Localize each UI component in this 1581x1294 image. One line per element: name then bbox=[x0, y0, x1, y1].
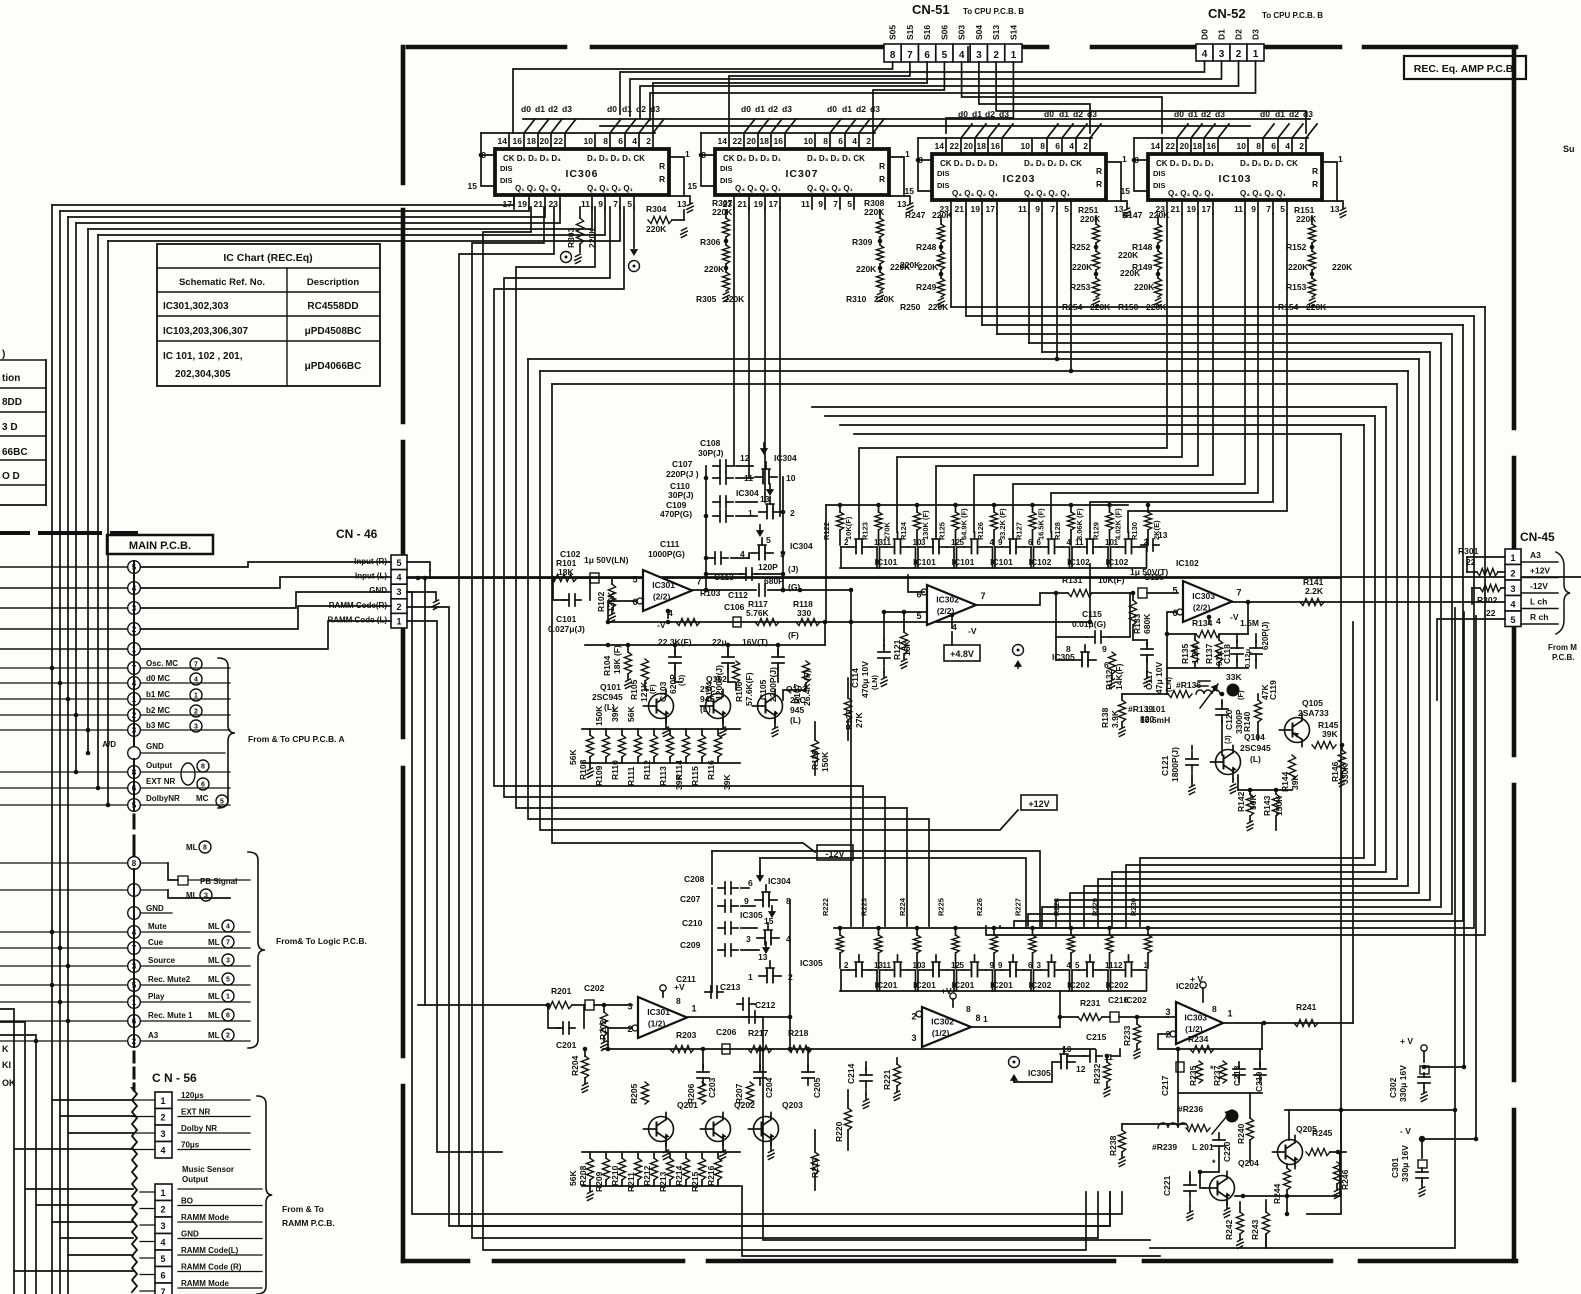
svg-text:220K: 220K bbox=[1072, 262, 1093, 272]
svg-text:9: 9 bbox=[990, 961, 995, 970]
svg-text:16: 16 bbox=[991, 141, 1001, 151]
svg-text:3: 3 bbox=[396, 587, 401, 597]
svg-text:6: 6 bbox=[1028, 538, 1033, 547]
svg-text:S03: S03 bbox=[957, 25, 967, 40]
svg-text:3: 3 bbox=[911, 1033, 916, 1043]
svg-text:R310: R310 bbox=[846, 294, 867, 304]
pin DolbyNR MC 5 bbox=[128, 799, 141, 812]
svg-text:330μ 16V: 330μ 16V bbox=[1398, 1065, 1408, 1102]
svg-text:9: 9 bbox=[818, 199, 823, 209]
svg-text:(L): (L) bbox=[700, 704, 711, 714]
svg-text:): ) bbox=[2, 349, 5, 360]
svg-text:5: 5 bbox=[1172, 586, 1177, 596]
svg-text:R305: R305 bbox=[696, 294, 717, 304]
svg-text:220K: 220K bbox=[1288, 262, 1309, 272]
svg-text:D3: D3 bbox=[1251, 29, 1261, 40]
svg-text:R123: R123 bbox=[861, 522, 870, 540]
svg-text:R303: R303 bbox=[566, 227, 576, 248]
svg-text:( J): ( J) bbox=[677, 674, 686, 686]
svg-text:R138: R138 bbox=[1100, 707, 1110, 728]
svg-text:2: 2 bbox=[844, 538, 849, 547]
svg-text:1: 1 bbox=[226, 994, 230, 1001]
svg-text:RAMM Code(L): RAMM Code(L) bbox=[181, 1246, 239, 1255]
svg-text:4: 4 bbox=[852, 136, 857, 146]
svg-text:+12V: +12V bbox=[1530, 566, 1550, 576]
svg-text:R304: R304 bbox=[646, 204, 667, 214]
svg-text:9: 9 bbox=[598, 199, 603, 209]
svg-text:4: 4 bbox=[396, 573, 401, 583]
wire R118 to bank bbox=[825, 590, 827, 622]
svg-text:d3: d3 bbox=[562, 104, 572, 114]
svg-text:Q204: Q204 bbox=[1238, 1158, 1259, 1168]
svg-text:56K: 56K bbox=[626, 706, 636, 722]
svg-text:Rec. Mute 1: Rec. Mute 1 bbox=[148, 1011, 193, 1020]
svg-text:25C: 25C bbox=[700, 684, 716, 694]
power label +12V bbox=[1021, 795, 1057, 810]
svg-text:IC305: IC305 bbox=[1028, 1068, 1051, 1078]
svg-text:11: 11 bbox=[1234, 204, 1243, 214]
transistor Q103 2SC945 (L) bbox=[758, 694, 783, 719]
op-amp IC302 (2/2) bbox=[927, 585, 976, 625]
pin Play ML 1 bbox=[128, 996, 141, 1009]
pin b1 MC 1 bbox=[128, 693, 141, 706]
svg-text:0.027μ(J): 0.027μ(J) bbox=[548, 624, 585, 634]
svg-text:7: 7 bbox=[907, 50, 913, 61]
svg-text:Q103: Q103 bbox=[786, 684, 807, 694]
transistor Q202 bbox=[706, 1117, 731, 1142]
wire IC301 lower feedback bbox=[608, 1028, 632, 1049]
svg-text:C102: C102 bbox=[560, 549, 581, 559]
svg-text:IC101: IC101 bbox=[990, 557, 1013, 567]
pin b3 MC 3 bbox=[128, 724, 141, 737]
svg-text:To CPU P.C.B. B: To CPU P.C.B. B bbox=[963, 7, 1024, 16]
svg-text:R143: R143 bbox=[1262, 795, 1272, 816]
svg-text:66BC: 66BC bbox=[2, 447, 28, 458]
wire transistor row rail bbox=[584, 1055, 586, 1057]
svg-text:IC202: IC202 bbox=[1029, 980, 1052, 990]
svg-text:R130: R130 bbox=[1130, 522, 1139, 540]
svg-text:R248: R248 bbox=[916, 242, 937, 252]
wire IC301 output bbox=[692, 589, 756, 591]
svg-text:R128: R128 bbox=[1053, 522, 1062, 540]
svg-text:10.5mH: 10.5mH bbox=[1140, 715, 1170, 725]
svg-text:Description: Description bbox=[307, 277, 359, 288]
svg-text:30P(J): 30P(J) bbox=[698, 448, 724, 458]
svg-text:CN-51: CN-51 bbox=[912, 2, 950, 17]
wire bus line S9 bbox=[552, 383, 1397, 385]
svg-text:DIS: DIS bbox=[937, 181, 950, 190]
svg-text:R242: R242 bbox=[1224, 1219, 1234, 1240]
svg-text:220K: 220K bbox=[1296, 214, 1317, 224]
svg-text:IC Chart (REC.Eq): IC Chart (REC.Eq) bbox=[223, 252, 312, 264]
svg-text:20: 20 bbox=[964, 141, 974, 151]
svg-text:25C: 25C bbox=[790, 695, 806, 705]
svg-text:R135: R135 bbox=[1180, 643, 1190, 664]
svg-text:d2: d2 bbox=[768, 104, 778, 114]
resistor ladder R309,220K,R310,220K bbox=[879, 210, 881, 218]
svg-text:CK D₁ D₂ D₃ D₄: CK D₁ D₂ D₃ D₄ bbox=[503, 154, 561, 163]
svg-text:R: R bbox=[1312, 179, 1318, 189]
svg-text:1: 1 bbox=[685, 149, 690, 159]
svg-text:ML: ML bbox=[208, 1031, 220, 1040]
wire Q104/Q105 interconnect bbox=[1232, 779, 1234, 782]
pin d0 MC 4 bbox=[128, 677, 141, 690]
svg-text:5: 5 bbox=[1280, 204, 1285, 214]
pin Rec. Mute2 ML 5 bbox=[128, 979, 141, 992]
transistor Q105 2SA733 bbox=[1285, 718, 1310, 743]
svg-text:7: 7 bbox=[160, 1287, 165, 1294]
bank bottom rail bbox=[840, 567, 1145, 569]
svg-text:S05: S05 bbox=[888, 25, 898, 40]
svg-text:4: 4 bbox=[160, 1146, 165, 1156]
svg-text:22: 22 bbox=[950, 141, 960, 151]
svg-text:MAIN P.C.B.: MAIN P.C.B. bbox=[129, 540, 191, 552]
svg-text:1: 1 bbox=[905, 149, 910, 159]
svg-text:Q₄ Q₃ Q₂ Q₁: Q₄ Q₃ Q₂ Q₁ bbox=[1168, 189, 1215, 198]
svg-text:D0: D0 bbox=[1200, 29, 1210, 40]
wire base rail upper bbox=[585, 644, 825, 646]
svg-text:5: 5 bbox=[766, 535, 771, 545]
svg-text:3: 3 bbox=[1165, 1007, 1170, 1017]
wire CN-46 signal verticals bbox=[407, 592, 1122, 1214]
svg-text:A3: A3 bbox=[148, 1031, 159, 1040]
svg-text:2SC945: 2SC945 bbox=[1240, 743, 1271, 753]
wire CN-46 staircase to MAIN P.C.B. pins bbox=[141, 562, 391, 567]
svg-text:9: 9 bbox=[744, 896, 749, 906]
svg-text:680K: 680K bbox=[1142, 613, 1152, 634]
svg-text:C202: C202 bbox=[584, 983, 605, 993]
svg-text:130K (F): 130K (F) bbox=[921, 510, 930, 540]
svg-text:(J): (J) bbox=[788, 564, 799, 574]
svg-text:120P: 120P bbox=[758, 562, 778, 572]
svg-text:DIS: DIS bbox=[720, 164, 733, 173]
svg-text:RAMM Code (R): RAMM Code (R) bbox=[181, 1263, 242, 1272]
svg-text:Play: Play bbox=[148, 992, 165, 1001]
svg-text:IC305: IC305 bbox=[740, 910, 763, 920]
svg-text:R230: R230 bbox=[1129, 898, 1138, 916]
svg-text:8: 8 bbox=[1066, 644, 1071, 654]
wire bus line R3 bbox=[1112, 407, 1386, 926]
svg-text:30P(J): 30P(J) bbox=[668, 490, 694, 500]
wire C120 to Q104 base bbox=[1221, 721, 1223, 755]
svg-text:21: 21 bbox=[534, 199, 544, 209]
svg-text:C112: C112 bbox=[728, 590, 748, 600]
svg-text:K: K bbox=[2, 1044, 9, 1054]
svg-text:R109: R109 bbox=[594, 765, 604, 786]
wire bus line S6 bbox=[1042, 351, 1430, 353]
svg-text:17: 17 bbox=[986, 204, 996, 214]
svg-text:6: 6 bbox=[160, 1271, 165, 1281]
svg-text:Q₄ Q₃ Q₂ Q₁: Q₄ Q₃ Q₂ Q₁ bbox=[735, 184, 782, 193]
svg-text:8: 8 bbox=[1212, 1004, 1217, 1014]
svg-text:ML: ML bbox=[208, 1011, 220, 1020]
svg-text:d3: d3 bbox=[650, 104, 660, 114]
wire bus line R2 bbox=[1126, 416, 1375, 926]
svg-text:1: 1 bbox=[983, 1014, 988, 1024]
svg-text:10: 10 bbox=[584, 136, 594, 146]
svg-text:3: 3 bbox=[160, 1221, 165, 1231]
svg-text:*: * bbox=[1212, 1158, 1216, 1168]
svg-text:5: 5 bbox=[942, 50, 948, 61]
wire CN-46 pin5 input R bbox=[407, 562, 430, 570]
transistor Q203 bbox=[754, 1117, 779, 1142]
svg-text:Osc. MC: Osc. MC bbox=[146, 659, 178, 668]
svg-text:C301: C301 bbox=[1390, 1157, 1400, 1178]
svg-text:R: R bbox=[1312, 166, 1318, 176]
svg-text:R244: R244 bbox=[1272, 1183, 1282, 1204]
svg-text:CN-52: CN-52 bbox=[1208, 6, 1246, 21]
wire bus line M2 +12V rail bbox=[540, 371, 1018, 830]
svg-text:C217: C217 bbox=[1160, 1075, 1170, 1096]
svg-text:C120: C120 bbox=[1224, 709, 1234, 730]
switch IC101 bbox=[848, 546, 856, 548]
svg-text:Source: Source bbox=[148, 956, 176, 965]
svg-text:R153: R153 bbox=[1286, 282, 1307, 292]
svg-text:2: 2 bbox=[993, 50, 999, 61]
svg-text:1.5M: 1.5M bbox=[1240, 618, 1259, 628]
svg-text:#R239: #R239 bbox=[1152, 1142, 1177, 1152]
svg-text:(L): (L) bbox=[790, 715, 801, 725]
svg-text:57.6K(F): 57.6K(F) bbox=[744, 672, 754, 706]
svg-text:(LN): (LN) bbox=[1164, 677, 1173, 692]
wire bus above IC307 bbox=[701, 132, 875, 134]
svg-text:18: 18 bbox=[977, 141, 987, 151]
svg-text:4: 4 bbox=[1067, 538, 1072, 547]
svg-text:5: 5 bbox=[632, 575, 637, 585]
svg-text:220P(J ): 220P(J ) bbox=[666, 469, 699, 479]
svg-text:CN - 46: CN - 46 bbox=[336, 527, 378, 541]
svg-text:6: 6 bbox=[1028, 961, 1033, 970]
svg-text:14K(F): 14K(F) bbox=[1114, 663, 1124, 690]
svg-text:Q₄ Q₃ Q₂ Q₁: Q₄ Q₃ Q₂ Q₁ bbox=[587, 184, 634, 193]
svg-text:R134: R134 bbox=[1192, 618, 1213, 628]
wire bus line R11 bbox=[1000, 316, 1474, 928]
svg-text:C208: C208 bbox=[684, 874, 705, 884]
svg-text:ML: ML bbox=[208, 938, 220, 947]
svg-text:1: 1 bbox=[1011, 50, 1017, 61]
svg-text:C201: C201 bbox=[556, 1040, 577, 1050]
switch IC101 bbox=[887, 546, 895, 548]
wire feedback bus upper bbox=[608, 621, 1090, 623]
svg-text:- V: - V bbox=[1400, 1126, 1411, 1136]
wire input L long bbox=[407, 577, 1341, 579]
pin Cue ML 7 bbox=[128, 942, 141, 955]
brace From & To Logic P.C.B. bbox=[248, 852, 265, 1048]
svg-text:R205: R205 bbox=[629, 1083, 639, 1104]
svg-text:150K: 150K bbox=[594, 705, 604, 726]
svg-text:R218: R218 bbox=[788, 1028, 809, 1038]
svg-text:C107: C107 bbox=[672, 459, 693, 469]
svg-text:Q104: Q104 bbox=[1244, 732, 1265, 742]
svg-text:IC 101, 102 , 201,: IC 101, 102 , 201, bbox=[163, 351, 243, 362]
svg-text:4: 4 bbox=[1069, 141, 1074, 151]
svg-text:4: 4 bbox=[959, 50, 965, 61]
svg-text:Output: Output bbox=[146, 761, 173, 770]
svg-text:11: 11 bbox=[883, 961, 892, 970]
svg-text:ML: ML bbox=[208, 922, 220, 931]
wire bus line S10 bbox=[812, 406, 1386, 408]
wire bus line R12 bbox=[986, 307, 1485, 935]
svg-text:3: 3 bbox=[921, 538, 926, 547]
switch IC202 bbox=[1002, 969, 1010, 971]
svg-text:8DD: 8DD bbox=[2, 397, 22, 408]
svg-text:33K: 33K bbox=[1226, 672, 1242, 682]
svg-text:d0: d0 bbox=[741, 104, 751, 114]
svg-text:2: 2 bbox=[1083, 141, 1088, 151]
wire bottom right corner lines bbox=[1150, 608, 1455, 1248]
svg-text:1: 1 bbox=[1144, 961, 1149, 970]
svg-text:+ V: + V bbox=[1400, 1036, 1413, 1046]
svg-text:47μ 10V: 47μ 10V bbox=[1154, 662, 1164, 694]
svg-text:tion: tion bbox=[2, 373, 20, 384]
svg-text:C114: C114 bbox=[850, 668, 860, 688]
svg-text:b2 MC: b2 MC bbox=[146, 706, 170, 715]
svg-text:Mute: Mute bbox=[148, 922, 167, 931]
svg-text:1μ 50V(T): 1μ 50V(T) bbox=[1130, 567, 1168, 577]
switch IC202 bbox=[1118, 969, 1126, 971]
svg-text:Input (L): Input (L) bbox=[355, 572, 387, 581]
svg-text:120μs: 120μs bbox=[181, 1091, 204, 1100]
svg-text:5: 5 bbox=[960, 961, 965, 970]
svg-text:R131: R131 bbox=[1062, 575, 1083, 585]
svg-text:R ch: R ch bbox=[1530, 612, 1548, 622]
svg-text:220K: 220K bbox=[704, 264, 725, 274]
svg-text:11: 11 bbox=[801, 199, 810, 209]
svg-text:17: 17 bbox=[769, 199, 779, 209]
wire IC303 output bbox=[1232, 601, 1505, 603]
svg-text:R102: R102 bbox=[596, 591, 606, 612]
svg-text:220K: 220K bbox=[918, 262, 939, 272]
svg-text:C211: C211 bbox=[676, 974, 696, 984]
wire IC203 output drops bbox=[950, 214, 952, 307]
svg-text:3: 3 bbox=[1510, 584, 1515, 594]
svg-text:2: 2 bbox=[790, 508, 795, 518]
wire bus line S4 bbox=[997, 333, 1452, 335]
REC.Eq.AMP P.C.B. border left edge bbox=[401, 47, 406, 183]
wire IC303 feedback box bbox=[1167, 612, 1177, 668]
svg-text:10: 10 bbox=[1237, 141, 1247, 151]
svg-text:L 201: L 201 bbox=[1192, 1142, 1214, 1152]
wire IC302 inputs bbox=[884, 611, 927, 613]
svg-text:3: 3 bbox=[746, 934, 751, 944]
svg-text:R148: R148 bbox=[1132, 242, 1153, 252]
svg-text:R225: R225 bbox=[937, 898, 946, 916]
wire IC301 lower output bbox=[687, 1016, 790, 1018]
wire bank to feedback bus bbox=[1089, 564, 1091, 622]
svg-text:8: 8 bbox=[1256, 141, 1261, 151]
svg-text:64.9K (F): 64.9K (F) bbox=[960, 508, 969, 540]
svg-text:(2/2): (2/2) bbox=[653, 592, 671, 602]
svg-text:7: 7 bbox=[1266, 204, 1271, 214]
switch IC202 bbox=[1041, 969, 1049, 971]
svg-text:3: 3 bbox=[160, 1129, 165, 1139]
svg-text:IC202: IC202 bbox=[1067, 980, 1090, 990]
svg-text:R122: R122 bbox=[822, 522, 831, 540]
svg-text:D1: D1 bbox=[1217, 29, 1227, 40]
svg-text:R241: R241 bbox=[1296, 1002, 1317, 1012]
svg-text:R: R bbox=[659, 174, 665, 184]
svg-text:3: 3 bbox=[627, 1002, 632, 1012]
svg-text:C221: C221 bbox=[1162, 1175, 1172, 1196]
wire bus CN-51 to IC clock pins bbox=[513, 62, 893, 133]
svg-text:R226: R226 bbox=[975, 898, 984, 916]
svg-text:220K: 220K bbox=[864, 207, 885, 217]
svg-text:2200P(J): 2200P(J) bbox=[768, 667, 778, 702]
svg-text:C108: C108 bbox=[700, 438, 721, 448]
bank rail lower bbox=[834, 927, 1128, 929]
svg-text:DIS: DIS bbox=[500, 176, 513, 185]
svg-text:+4.8V: +4.8V bbox=[950, 649, 974, 659]
wire Q205 collector up bbox=[1288, 1110, 1290, 1140]
svg-text:15: 15 bbox=[1121, 186, 1131, 196]
svg-text:R235: R235 bbox=[1188, 1065, 1198, 1086]
svg-text:C N - 56: C N - 56 bbox=[152, 1071, 197, 1085]
MAIN P.C.B. pins 5-1 bbox=[128, 561, 141, 574]
svg-text:GND: GND bbox=[146, 742, 164, 751]
svg-text:R217: R217 bbox=[748, 1028, 769, 1038]
svg-text:8: 8 bbox=[1040, 141, 1045, 151]
svg-text:D₄ D₃ D₂ D₁ CK: D₄ D₃ D₂ D₁ CK bbox=[587, 154, 645, 163]
node e bbox=[633, 207, 635, 248]
op-amp IC302 (1/2) bbox=[922, 1007, 971, 1047]
svg-text:R149: R149 bbox=[1132, 262, 1153, 272]
svg-text:4: 4 bbox=[226, 924, 230, 931]
wire input R bbox=[430, 570, 551, 578]
transistor Q204 bbox=[1210, 1176, 1235, 1201]
svg-text:R203: R203 bbox=[676, 1030, 697, 1040]
svg-text:From & To: From & To bbox=[282, 1204, 324, 1214]
svg-text:C210: C210 bbox=[682, 918, 703, 928]
switch IC102 bbox=[1041, 546, 1049, 548]
svg-text:MC: MC bbox=[196, 794, 209, 803]
wire bus line R5 bbox=[1084, 371, 1408, 926]
svg-text:1000P(G): 1000P(G) bbox=[648, 549, 685, 559]
svg-text:(1/2): (1/2) bbox=[932, 1028, 950, 1038]
svg-text:33.2K (F): 33.2K (F) bbox=[998, 508, 1007, 540]
svg-text:2: 2 bbox=[1236, 49, 1242, 60]
svg-text:DIS: DIS bbox=[1153, 181, 1166, 190]
svg-text:μPD4066BC: μPD4066BC bbox=[305, 361, 362, 372]
MAIN P.C.B. border bbox=[0, 531, 28, 535]
svg-text:1: 1 bbox=[1122, 154, 1127, 164]
svg-text:R: R bbox=[659, 161, 665, 171]
svg-text:16: 16 bbox=[1207, 141, 1217, 151]
switch IC202 bbox=[1079, 969, 1087, 971]
bank rail upper bbox=[826, 504, 1128, 506]
svg-text:20: 20 bbox=[1180, 141, 1190, 151]
wire bus line M3 -12V rail bbox=[552, 384, 815, 852]
svg-text:4.02K (F): 4.02K (F) bbox=[1114, 508, 1123, 540]
svg-text:220K: 220K bbox=[1080, 214, 1101, 224]
svg-text:*: * bbox=[1210, 1064, 1214, 1074]
svg-text:1: 1 bbox=[160, 1096, 165, 1106]
svg-text:5: 5 bbox=[627, 199, 632, 209]
svg-text:7: 7 bbox=[980, 591, 985, 601]
wire bottom right frame bbox=[1285, 1109, 1455, 1111]
svg-text:R126: R126 bbox=[976, 522, 985, 540]
pin EXT NR MC 6 bbox=[128, 782, 141, 795]
wire bus line R10 bbox=[1014, 325, 1463, 926]
op-amp IC303 (2/2) bbox=[1183, 581, 1232, 622]
svg-text:Q₄ Q₃ Q₂ Q₁: Q₄ Q₃ Q₂ Q₁ bbox=[1240, 189, 1287, 198]
svg-text:14: 14 bbox=[935, 141, 945, 151]
wire bus line L1 bbox=[459, 207, 1110, 1226]
svg-text:22: 22 bbox=[733, 136, 743, 146]
svg-text:R224: R224 bbox=[898, 897, 907, 916]
svg-text:6: 6 bbox=[924, 50, 930, 61]
svg-text:RAMM P.C.B.: RAMM P.C.B. bbox=[282, 1218, 335, 1228]
svg-text:22: 22 bbox=[554, 136, 564, 146]
